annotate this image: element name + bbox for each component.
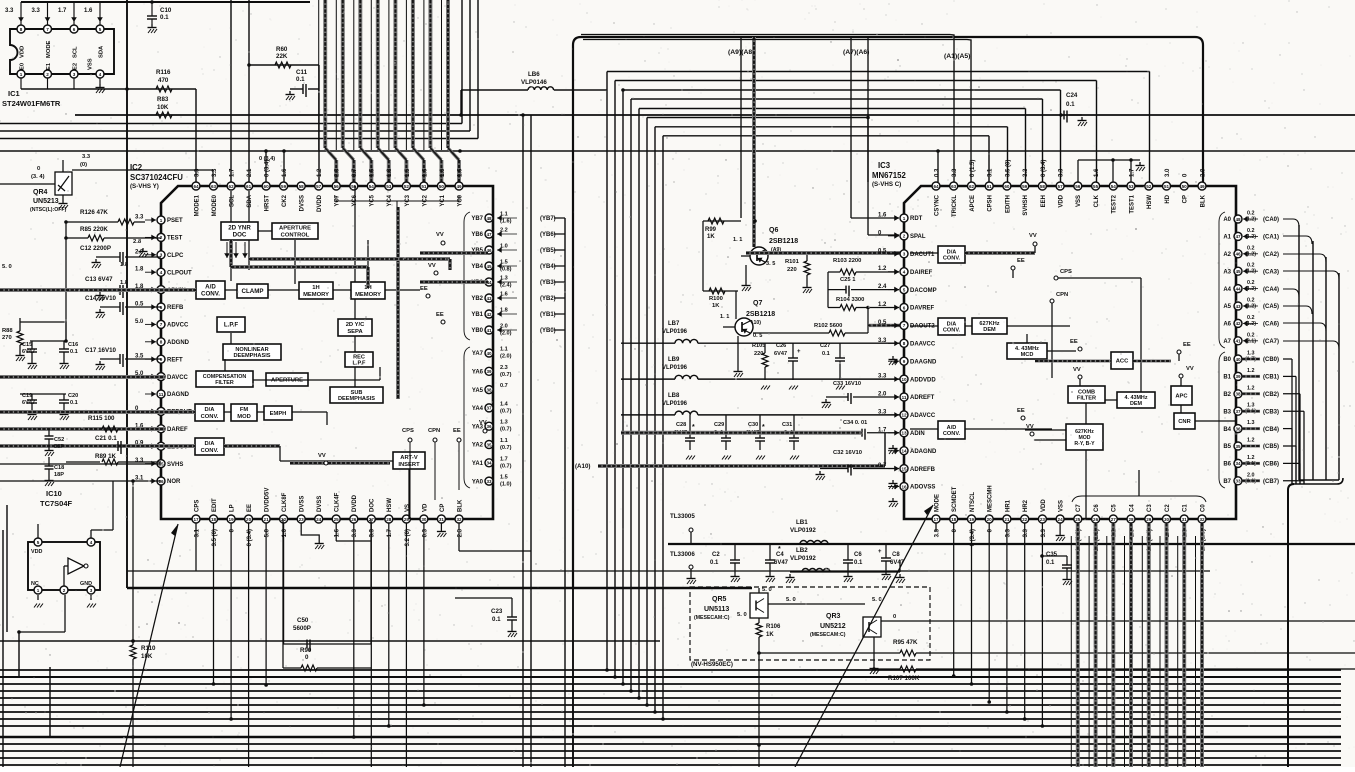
svg-text:59: 59: [1022, 184, 1028, 189]
svg-text:(2.4): (2.4): [500, 283, 512, 289]
svg-text:VV: VV: [428, 263, 436, 269]
svg-text:1.8: 1.8: [120, 280, 129, 286]
svg-text:A4: A4: [1223, 287, 1231, 293]
svg-text:1.2: 1.2: [1247, 438, 1255, 444]
svg-text:DOC: DOC: [370, 498, 376, 512]
svg-text:CONV.: CONV.: [943, 328, 961, 334]
svg-text:1.6: 1.6: [282, 168, 288, 177]
svg-text:0.1: 0.1: [710, 560, 719, 566]
svg-text:64: 64: [193, 184, 199, 189]
svg-text:ADAGND: ADAGND: [910, 449, 937, 455]
svg-text:B2: B2: [1223, 392, 1231, 398]
svg-text:45: 45: [486, 264, 492, 269]
svg-text:(0.7): (0.7): [500, 408, 512, 414]
svg-text:22K: 22K: [276, 53, 288, 60]
svg-text:0.7: 0.7: [352, 168, 358, 177]
svg-text:(1.6): (1.6): [500, 219, 512, 225]
svg-text:YC3: YC3: [405, 194, 411, 206]
svg-text:B1: B1: [1223, 375, 1231, 381]
svg-text:DVSS: DVSS: [300, 496, 306, 512]
svg-text:3.3: 3.3: [934, 528, 940, 537]
svg-text:VLP0146: VLP0146: [521, 79, 547, 86]
svg-text:VSS: VSS: [88, 58, 94, 70]
svg-text:1K: 1K: [712, 303, 720, 309]
svg-text:COMPENSATION: COMPENSATION: [203, 374, 247, 380]
svg-text:(MESECAM:C): (MESECAM:C): [694, 615, 730, 621]
svg-text:3.2 (0): 3.2 (0): [405, 529, 411, 546]
svg-text:1.1: 1.1: [500, 347, 508, 353]
svg-text:HSW: HSW: [387, 498, 393, 512]
svg-text:VSS: VSS: [1076, 195, 1082, 207]
svg-text:20: 20: [987, 517, 993, 522]
svg-text:LB8: LB8: [668, 393, 680, 399]
svg-text:VV: VV: [479, 420, 487, 426]
svg-text:42: 42: [1235, 321, 1241, 326]
svg-text:CONV.: CONV.: [201, 448, 219, 454]
svg-text:12: 12: [901, 413, 907, 418]
svg-text:6V47: 6V47: [774, 560, 789, 566]
svg-text:COMB: COMB: [1078, 389, 1095, 395]
svg-text:CPS: CPS: [1060, 269, 1072, 275]
svg-text:DEM: DEM: [1130, 401, 1142, 407]
svg-text:NONLINEAR: NONLINEAR: [235, 347, 268, 353]
svg-text:9: 9: [903, 359, 906, 364]
svg-text:23: 23: [1040, 517, 1046, 522]
svg-text:3.3: 3.3: [352, 528, 358, 537]
svg-text:CONTROL: CONTROL: [281, 232, 310, 238]
svg-text:1.2: 1.2: [1247, 368, 1255, 374]
svg-text:43: 43: [486, 296, 492, 301]
svg-text:53: 53: [386, 184, 392, 189]
svg-text:DEEMPHASIS: DEEMPHASIS: [234, 353, 271, 359]
svg-text:C3: C3: [1147, 504, 1153, 512]
svg-text:58: 58: [1040, 184, 1046, 189]
svg-text:51: 51: [421, 184, 427, 189]
svg-text:MN67152: MN67152: [872, 171, 906, 180]
svg-text:(CB1): (CB1): [1263, 375, 1279, 381]
svg-text:DACOMP: DACOMP: [910, 288, 937, 294]
svg-text:(MESECAM:C): (MESECAM:C): [810, 632, 846, 638]
svg-text:LB6: LB6: [528, 71, 540, 78]
svg-text:50: 50: [1182, 184, 1188, 189]
svg-text:55: 55: [351, 184, 357, 189]
svg-text:YB0: YB0: [471, 328, 483, 334]
svg-text:QR4: QR4: [33, 189, 48, 196]
svg-text:APC: APC: [1175, 394, 1188, 400]
svg-text:(A10): (A10): [575, 463, 590, 470]
svg-text:ACC: ACC: [1116, 359, 1129, 365]
svg-text:C20: C20: [68, 393, 78, 399]
svg-text:3.3: 3.3: [952, 168, 958, 177]
svg-text:(YB0): (YB0): [540, 328, 556, 334]
svg-text:55: 55: [1093, 184, 1099, 189]
svg-text:C4: C4: [1129, 504, 1135, 512]
svg-text:(CB0): (CB0): [1263, 357, 1279, 363]
svg-text:3.3: 3.3: [878, 338, 887, 344]
svg-text:(CA1): (CA1): [1263, 235, 1279, 241]
svg-text:CNR: CNR: [1178, 419, 1191, 425]
svg-text:ADREFT: ADREFT: [910, 395, 935, 401]
svg-text:1K: 1K: [766, 632, 774, 638]
svg-text:0.1: 0.1: [854, 560, 863, 566]
svg-text:0.1: 0.1: [70, 400, 78, 406]
svg-text:7: 7: [903, 323, 906, 328]
svg-text:ST24W01FM6TR: ST24W01FM6TR: [2, 99, 61, 108]
svg-text:14: 14: [901, 449, 907, 454]
svg-text:C2: C2: [1165, 504, 1171, 512]
svg-text:A1: A1: [1223, 235, 1231, 241]
svg-text:3.3: 3.3: [135, 215, 144, 221]
svg-text:R90: R90: [300, 647, 312, 654]
svg-text:(CA5): (CA5): [1263, 304, 1279, 310]
svg-text:INSERT: INSERT: [398, 462, 420, 468]
svg-text:R106: R106: [766, 624, 781, 630]
svg-text:30: 30: [421, 517, 427, 522]
svg-text:DAGND: DAGND: [167, 392, 190, 398]
svg-text:5. 0: 5. 0: [872, 597, 882, 603]
svg-text:DAVCC: DAVCC: [167, 375, 189, 381]
svg-text:1.7: 1.7: [1129, 168, 1135, 177]
svg-text:(CA0): (CA0): [1263, 217, 1279, 223]
svg-text:2: 2: [63, 588, 66, 593]
svg-text:63: 63: [211, 184, 217, 189]
svg-text:MCD: MCD: [1021, 352, 1034, 358]
svg-text:R-Y, B-Y: R-Y, B-Y: [1074, 441, 1095, 447]
svg-text:C19: C19: [22, 393, 32, 399]
svg-text:C28: C28: [676, 422, 686, 428]
svg-text:3.1: 3.1: [194, 528, 200, 537]
svg-text:EDITH: EDITH: [1005, 195, 1011, 213]
svg-text:1.3: 1.3: [500, 420, 508, 426]
svg-text:C10: C10: [160, 7, 172, 14]
svg-text:52: 52: [1146, 184, 1152, 189]
svg-text:62: 62: [969, 184, 975, 189]
svg-text:5. 0: 5. 0: [737, 612, 747, 618]
svg-text:5600P: 5600P: [293, 625, 311, 632]
svg-text:4: 4: [903, 270, 906, 275]
svg-text:TC7S04F: TC7S04F: [40, 499, 73, 508]
svg-text:TEST2: TEST2: [1112, 194, 1118, 213]
svg-text:6V47: 6V47: [774, 351, 787, 357]
svg-text:DEEMPHASIS: DEEMPHASIS: [338, 396, 375, 402]
svg-text:HR1: HR1: [1005, 499, 1011, 512]
svg-text:0.5: 0.5: [878, 320, 887, 326]
svg-text:DAAVCC: DAAVCC: [910, 342, 936, 348]
svg-text:CONV.: CONV.: [943, 256, 961, 262]
svg-text:36: 36: [486, 424, 492, 429]
svg-text:0.7: 0.7: [500, 383, 508, 389]
svg-text:(CA4): (CA4): [1263, 287, 1279, 293]
svg-text:(YB4): (YB4): [540, 264, 556, 270]
svg-text:EE: EE: [1017, 408, 1025, 414]
svg-text:33: 33: [1235, 479, 1241, 484]
svg-text:EE: EE: [420, 286, 428, 292]
svg-text:VV: VV: [1026, 424, 1034, 430]
svg-text:(S-VHS C): (S-VHS C): [872, 181, 901, 188]
svg-text:C2: C2: [712, 552, 720, 558]
svg-text:1.6: 1.6: [84, 8, 93, 14]
svg-text:B3: B3: [1223, 409, 1231, 415]
svg-text:1. 1: 1. 1: [733, 237, 742, 243]
svg-text:*: *: [762, 424, 765, 431]
svg-text:31: 31: [439, 517, 445, 522]
svg-text:40: 40: [486, 351, 492, 356]
svg-text:VLP0196: VLP0196: [662, 365, 688, 371]
svg-text:(CA2): (CA2): [1263, 252, 1279, 258]
svg-text:5: 5: [99, 27, 102, 32]
svg-text:UN5212: UN5212: [820, 623, 846, 630]
svg-text:YC7: YC7: [335, 194, 341, 206]
svg-text:*: *: [692, 424, 695, 431]
svg-text:1: 1: [37, 588, 40, 593]
svg-text:(CB4): (CB4): [1263, 427, 1279, 433]
svg-text:2.4: 2.4: [878, 284, 887, 290]
svg-text:CP: CP: [440, 504, 446, 512]
svg-text:19: 19: [969, 517, 975, 522]
svg-text:(NV-HS950EC): (NV-HS950EC): [691, 661, 733, 668]
svg-text:8: 8: [160, 340, 163, 345]
svg-text:ADAVCC: ADAVCC: [910, 413, 936, 419]
svg-text:46: 46: [1235, 252, 1241, 257]
svg-text:5. 0: 5. 0: [762, 587, 772, 593]
svg-text:3.5 (0): 3.5 (0): [1005, 160, 1011, 177]
svg-text:VV: VV: [318, 453, 326, 459]
svg-text:21: 21: [1004, 517, 1010, 522]
svg-text:0.5: 0.5: [878, 248, 887, 254]
svg-text:(NTSC(L):OFF): (NTSC(L):OFF): [30, 207, 67, 213]
svg-text:QR3: QR3: [826, 613, 841, 620]
svg-text:LP: LP: [230, 504, 236, 512]
svg-text:IC3: IC3: [878, 161, 891, 170]
svg-text:APCE: APCE: [970, 195, 976, 212]
svg-text:2.8: 2.8: [1200, 168, 1206, 177]
svg-text:A/D: A/D: [947, 425, 957, 431]
svg-text:0 (3.4): 0 (3.4): [970, 529, 976, 546]
svg-text:YC1: YC1: [440, 194, 446, 206]
svg-text:R60: R60: [276, 46, 288, 53]
svg-text:ADREFB: ADREFB: [910, 467, 936, 473]
svg-text:0 (3.4): 0 (3.4): [1041, 160, 1047, 177]
svg-text:R116: R116: [156, 69, 171, 76]
svg-text:3.3: 3.3: [5, 8, 14, 14]
svg-text:6V47: 6V47: [22, 349, 35, 355]
svg-text:13: 13: [901, 431, 907, 436]
svg-text:49: 49: [456, 184, 462, 189]
svg-text:17: 17: [193, 517, 199, 522]
svg-text:11: 11: [159, 392, 164, 397]
svg-text:53: 53: [1128, 184, 1134, 189]
svg-text:CLK4F: CLK4F: [335, 492, 341, 512]
svg-text:6: 6: [73, 27, 76, 32]
svg-text:0: 0: [37, 166, 40, 172]
svg-text:41: 41: [1235, 339, 1241, 344]
svg-text:DAIREF: DAIREF: [910, 270, 933, 276]
svg-text:(0.7): (0.7): [500, 445, 512, 451]
svg-text:SCL: SCL: [73, 46, 79, 58]
svg-text:+: +: [797, 349, 801, 355]
svg-text:61: 61: [987, 184, 993, 189]
svg-text:(CA7): (CA7): [1263, 339, 1279, 345]
svg-text:10: 10: [901, 377, 907, 382]
svg-text:15: 15: [901, 466, 907, 471]
svg-text:CSYNC: CSYNC: [934, 194, 940, 216]
svg-text:3.3: 3.3: [1059, 168, 1065, 177]
svg-text:VLP0192: VLP0192: [790, 527, 816, 534]
svg-text:3.3: 3.3: [82, 154, 91, 160]
svg-text:VV: VV: [436, 232, 444, 238]
svg-text:4: 4: [90, 540, 93, 545]
svg-text:(CB3): (CB3): [1263, 409, 1279, 415]
svg-text:DVDD: DVDD: [352, 494, 358, 512]
svg-text:56: 56: [334, 184, 340, 189]
svg-text:33P: 33P: [54, 444, 64, 450]
svg-text:VLP0196: VLP0196: [662, 401, 688, 407]
svg-text:CPSH: CPSH: [988, 195, 994, 212]
svg-text:42: 42: [486, 312, 492, 317]
svg-text:CPS: CPS: [194, 500, 200, 512]
svg-text:SVHS: SVHS: [167, 462, 183, 468]
svg-text:2.3: 2.3: [500, 365, 508, 371]
svg-text:(0): (0): [80, 162, 87, 168]
svg-text:REFT: REFT: [167, 357, 183, 363]
svg-text:56: 56: [1075, 184, 1081, 189]
svg-text:C50: C50: [297, 617, 309, 624]
svg-text:C6: C6: [1094, 504, 1100, 512]
svg-text:CK2: CK2: [282, 194, 288, 207]
svg-text:R88: R88: [2, 328, 13, 334]
svg-text:25: 25: [1075, 517, 1081, 522]
svg-text:2.1: 2.1: [247, 168, 253, 177]
svg-text:33: 33: [486, 479, 492, 484]
svg-text:D/A: D/A: [205, 407, 216, 413]
svg-text:(CB5): (CB5): [1263, 444, 1279, 450]
svg-text:1.5: 1.5: [405, 168, 411, 177]
svg-text:0.1: 0.1: [822, 351, 830, 357]
svg-text:24: 24: [1058, 517, 1064, 522]
svg-text:D/A: D/A: [205, 441, 216, 447]
svg-text:R95 47K: R95 47K: [893, 639, 918, 646]
svg-text:EE: EE: [247, 504, 253, 512]
svg-text:C29: C29: [714, 422, 724, 428]
svg-text:CLAMP: CLAMP: [242, 288, 264, 295]
svg-text:60: 60: [1004, 184, 1010, 189]
svg-text:7: 7: [46, 27, 49, 32]
svg-text:DVSS: DVSS: [300, 195, 306, 211]
svg-text:R105: R105: [752, 343, 765, 349]
svg-text:37: 37: [1235, 409, 1241, 414]
svg-text:A2: A2: [1223, 252, 1231, 258]
svg-text:41: 41: [486, 328, 492, 333]
svg-text:3.3: 3.3: [1041, 528, 1047, 537]
svg-text:*: *: [778, 546, 781, 553]
svg-text:37: 37: [486, 406, 492, 411]
svg-text:(A1)(A5): (A1)(A5): [944, 53, 970, 60]
svg-text:(2.0): (2.0): [500, 354, 512, 360]
svg-text:YA1: YA1: [472, 461, 484, 467]
svg-text:28: 28: [1128, 517, 1134, 522]
svg-text:BLK: BLK: [457, 499, 463, 512]
svg-text:1.7: 1.7: [58, 8, 67, 14]
svg-text:DAAGND: DAAGND: [910, 359, 937, 365]
svg-text:(CA6): (CA6): [1263, 322, 1279, 328]
svg-text:R100: R100: [709, 296, 723, 302]
svg-text:57: 57: [1058, 184, 1064, 189]
svg-text:VDD: VDD: [31, 549, 42, 555]
svg-text:EE: EE: [1070, 339, 1078, 345]
svg-text:1.8: 1.8: [387, 168, 393, 177]
svg-text:58: 58: [299, 184, 305, 189]
svg-text:18: 18: [951, 517, 957, 522]
svg-text:45: 45: [1235, 269, 1241, 274]
svg-text:SDA: SDA: [99, 45, 105, 58]
svg-text:LB7: LB7: [668, 321, 680, 327]
svg-text:C26: C26: [776, 343, 786, 349]
svg-text:R104 3300: R104 3300: [836, 297, 864, 303]
svg-text:DOC: DOC: [233, 232, 247, 239]
svg-text:R83: R83: [157, 96, 169, 103]
svg-text:0.1: 0.1: [296, 76, 305, 83]
svg-text:0.3: 0.3: [422, 528, 428, 537]
svg-text:MODE1: MODE1: [194, 194, 200, 216]
svg-text:ADOVSS: ADOVSS: [910, 485, 935, 491]
svg-text:3: 3: [90, 588, 93, 593]
svg-text:1.2: 1.2: [1247, 385, 1255, 391]
svg-text:0.1: 0.1: [70, 349, 78, 355]
svg-text:E2: E2: [73, 63, 79, 70]
svg-text:EEH: EEH: [1041, 195, 1047, 207]
svg-text:(YB7): (YB7): [540, 216, 556, 222]
svg-text:C24: C24: [1066, 92, 1078, 99]
svg-text:1.2: 1.2: [878, 302, 887, 308]
svg-text:1.3: 1.3: [1247, 420, 1255, 426]
svg-text:A5: A5: [1223, 304, 1231, 310]
svg-text:R115 100: R115 100: [88, 415, 115, 422]
svg-text:17: 17: [933, 517, 939, 522]
svg-text:YC0: YC0: [457, 194, 463, 206]
svg-text:1.6: 1.6: [1094, 168, 1100, 177]
svg-text:LB9: LB9: [668, 357, 680, 363]
svg-text:57: 57: [316, 184, 322, 189]
svg-text:63: 63: [951, 184, 957, 189]
svg-text:YB6: YB6: [471, 232, 483, 238]
svg-text:2D YNR: 2D YNR: [228, 225, 251, 232]
svg-text:NC: NC: [31, 581, 39, 587]
svg-text:1.2: 1.2: [317, 168, 323, 177]
svg-text:C52: C52: [54, 437, 64, 443]
svg-text:270: 270: [2, 335, 12, 341]
svg-text:3.3: 3.3: [32, 8, 41, 14]
svg-text:26: 26: [1093, 517, 1099, 522]
svg-text:54: 54: [1111, 184, 1117, 189]
svg-text:1.6: 1.6: [422, 168, 428, 177]
svg-text:R107 100K: R107 100K: [888, 675, 920, 682]
svg-text:0.1: 0.1: [1066, 101, 1075, 108]
svg-text:5: 5: [903, 287, 906, 292]
svg-text:MESCMH: MESCMH: [988, 485, 994, 512]
svg-text:GND: GND: [80, 581, 92, 587]
svg-text:SC371024CFU: SC371024CFU: [130, 173, 183, 182]
svg-text:1.6: 1.6: [878, 213, 887, 219]
svg-text:54: 54: [369, 184, 375, 189]
svg-text:C17 16V10: C17 16V10: [85, 347, 117, 354]
svg-text:(YB5): (YB5): [540, 248, 556, 254]
svg-text:R102 5600: R102 5600: [814, 323, 842, 329]
svg-text:DVDD: DVDD: [317, 194, 323, 212]
svg-text:(CB2): (CB2): [1263, 392, 1279, 398]
svg-text:1.1: 1.1: [500, 438, 508, 444]
svg-text:YB1: YB1: [471, 312, 483, 318]
svg-text:38: 38: [1235, 392, 1241, 397]
